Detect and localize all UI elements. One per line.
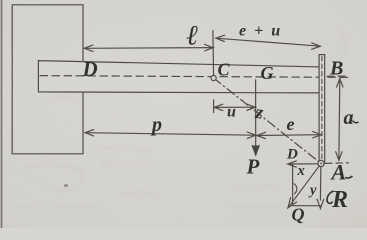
force D at A (horizontal, leftward) [289, 163, 321, 165]
force P line [255, 80, 257, 147]
extension line through C [212, 31, 215, 78]
a tail swash [353, 121, 359, 123]
dimension l [84, 47, 213, 50]
force Q (diagonal at A) [289, 164, 321, 207]
dimension e+u [216, 38, 320, 46]
dimension e [257, 134, 322, 137]
force R (vertical at A) [319, 164, 322, 200]
ghost bleed-through marks [8, 30, 345, 209]
wall (fixed support) [12, 5, 83, 154]
angle arc at Q [294, 184, 297, 194]
paper speck [64, 184, 68, 187]
dashed extension at A [326, 162, 349, 165]
end plate at B [319, 55, 325, 164]
scan grain [0, 0, 1, 1]
dimension u [214, 106, 255, 108]
diagonal centroid line C to A (dash-dot) [214, 78, 321, 163]
beam centerline (dashed) [40, 76, 349, 78]
dimension a [338, 79, 341, 161]
node C [211, 75, 216, 80]
dimension p [85, 133, 256, 136]
force parallelogram at A [293, 164, 321, 206]
tick below C for u dimension [213, 100, 215, 113]
beam [38, 61, 319, 93]
dashed extension at B [327, 75, 349, 77]
A tail swash [345, 176, 353, 178]
node A [318, 160, 324, 166]
scan gutter edge [1, 0, 3, 228]
R leading swash [327, 191, 334, 203]
